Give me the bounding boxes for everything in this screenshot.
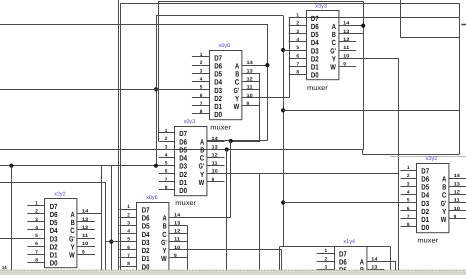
svg-text:muxer: muxer [210,124,232,131]
svg-text:2: 2 [296,21,299,27]
svg-text:3: 3 [296,29,299,35]
pin 8 (D0) of x0y6 [119,266,137,268]
svg-text:5: 5 [35,233,38,239]
svg-text:6: 6 [127,245,130,251]
pin 6 (D2) of x3y3 [289,58,307,60]
pin 2 (D6) of x0y0 [192,65,210,67]
svg-text:13: 13 [247,68,254,74]
pin 6 (D2) of x0y0 [192,97,210,99]
wire horizontal y=110.4 to right vertical [283,110,459,112]
svg-text:12: 12 [174,229,181,235]
svg-text:8: 8 [407,222,410,228]
junction dot left end of y=165.7 wire [9,164,13,168]
svg-text:6: 6 [165,169,168,175]
wire x0y0 B output wire [242,73,260,75]
pin 13 (B) of x1y4 [367,269,385,271]
pin 4 (D4) of x3y2 [401,194,417,196]
wire x0y3 A output wire to junction [207,140,231,142]
wire vertical x=398.4 from x3y3 Y down to bottom band [398,58,400,270]
pin 10 (Y) of x2y2 [77,246,95,248]
wire vertical step x=362.6 [362,150,364,155]
pin 3 (D5) of x3y2 [401,186,417,188]
svg-text:10: 10 [82,241,89,247]
wire horizontal y=241.6 into x0y6 pin5 [105,241,137,243]
svg-text:11: 11 [82,233,89,239]
junction dot on D3 bus at y=110.4 [281,108,285,112]
svg-text:14: 14 [174,212,181,218]
pin 2 (D6) of x3y3 [289,25,307,27]
wire stub entering from right edge y=24.2 [461,24,466,26]
pin 12 (C) of x2y2 [77,229,95,231]
pin 9 (W) of x3y2 [449,218,466,220]
wire vertical x=400.2 from screen top [400,0,402,37]
wire vertical x=259.9 from x0y0 B down [259,73,261,142]
wire net D7 row: horizontal y=1.2 [158,1,363,3]
pin 14 (A) of x3y3 [339,25,357,27]
svg-text:7: 7 [127,253,130,259]
pin 9 (W) of x0y3 [207,181,225,183]
pin 14 (A) of x1y4 [367,261,385,263]
muxer x2y2 [27,192,95,275]
wire x3y3 A output wire to junction [339,25,364,27]
pin 5 (D3) of x0y6 [119,241,137,243]
junction dot x3y3 pin5 wire [281,48,285,52]
svg-text:muxer: muxer [175,200,197,207]
pin 2 (D6) of x0y6 [119,217,137,219]
pin 14 (A) of x0y6 [169,217,187,219]
svg-text:1: 1 [200,52,203,58]
pin 9 (W) of x3y3 [339,66,357,68]
svg-text:W: W [161,254,167,263]
svg-text:4: 4 [165,152,168,158]
wire horizontal y=238.1 from left edge into x2y2 pin5 [0,238,45,240]
pin 14 (A) of x2y2 [77,213,95,215]
wire x0y6 B output wire [169,225,187,227]
svg-text:x0y0: x0y0 [219,43,231,49]
svg-text:5: 5 [127,237,130,243]
pin 12 (C) of x0y3 [207,157,225,159]
wire vertical x=120.5 from top wire down to x0y6 pin2 [120,3,122,270]
wire horizontal y=165.7 into x0y3 pin5 [0,165,175,167]
pin 9 (W) of x0y0 [242,105,260,107]
svg-text:muxer: muxer [307,85,329,92]
svg-text:W: W [69,251,75,260]
svg-text:x2y2: x2y2 [54,192,66,198]
svg-text:13: 13 [212,144,219,150]
svg-text:2: 2 [325,256,328,262]
wire vertical x=281.9 down to bottom band [281,250,283,271]
pin 1 (D7) of x3y2 [401,170,417,172]
svg-text:2: 2 [35,209,38,215]
wire horizontal y=154.4 step to right vertical [363,154,460,156]
pin 8 (D0) of x3y3 [289,74,307,76]
svg-text:10: 10 [247,93,254,99]
junction dot x0y3 A output [229,139,233,143]
wire horizontal y=24 from left edge [0,24,267,26]
wire vertical x=280.1 down to bottom band [279,247,281,271]
pin 13 (B) of x3y2 [449,186,466,188]
muxer x3y2 [401,156,466,244]
wire net D3 horizontal y=15.5 [156,15,283,17]
svg-text:D0: D0 [421,223,429,232]
wire x1y4 A output wire [367,261,396,263]
svg-text:13: 13 [82,217,89,223]
svg-text:13: 13 [371,265,378,271]
wire horizontal y=182.1 from left edge [0,182,105,184]
svg-text:5: 5 [407,198,410,204]
svg-text:4: 4 [35,225,38,231]
wire horizontal y=202.5 into x3y2 pin5 [283,202,417,204]
svg-text:11: 11 [454,198,461,204]
muxer x3y3 [289,4,357,92]
wire vertical x=101.6 from y=165.7 wire down to x2y2 A output [101,166,103,271]
svg-text:D0: D0 [311,71,319,80]
pin 6 (D2) of x3y2 [401,210,417,212]
svg-text:14: 14 [343,21,350,27]
pin 14 (A) of x0y0 [242,65,260,67]
wire vertical x=395.7 from x1y4 A down [395,261,397,270]
pin 10 (Y) of x3y2 [449,210,466,212]
wire horizontal into x3y3 pin5 [283,50,306,52]
pin 7 (D1) of x2y2 [27,254,45,256]
svg-text:7: 7 [407,214,410,220]
svg-text:1: 1 [296,13,299,19]
pin 5 (D3) of x0y3 [159,165,175,167]
wire x2y2 A output wire [77,213,101,215]
svg-text:1: 1 [407,165,410,171]
pin 10 (Y) of x3y3 [339,58,357,60]
pin 4 (D4) of x0y3 [159,157,175,159]
junction dot x0y0 A output [265,63,269,67]
svg-text:2: 2 [127,212,130,218]
svg-text:9: 9 [454,214,457,220]
svg-text:9: 9 [343,61,346,67]
pin 11 (G&#39;) of x3y3 [339,50,357,52]
svg-text:3: 3 [407,181,410,187]
muxer x0y0 [192,43,260,131]
pin 7 (D1) of x3y3 [289,66,307,68]
wire vertical x=259.4 from Y wire down to bottom band [259,174,261,271]
svg-text:W: W [441,215,447,224]
pin 5 (D3) of x0y0 [192,89,210,91]
pin 4 (D4) of x3y3 [289,41,307,43]
svg-text:W: W [234,102,240,111]
wire net D6: horizontal at top y=2.6 [121,3,460,5]
pin 11 (G&#39;) of x0y3 [207,165,225,167]
pin 3 (D5) of x1y4 [317,269,335,271]
pin 13 (B) of x0y6 [169,225,187,227]
svg-text:x1y4: x1y4 [343,239,355,245]
svg-text:5: 5 [296,45,299,51]
pin 13 (B) of x0y0 [242,73,260,75]
svg-text:2: 2 [407,173,410,179]
wire vertical x=289.1 connecting x3y3 D7 row to x0y0 Y output [289,18,291,98]
svg-text:13: 13 [343,29,350,35]
wire vertical x=230.7 down to x0y6 A output wire [230,141,232,217]
wire vertical x=187.2 down to bottom band [187,225,189,270]
wire vertical x=459.3 right side [459,3,461,154]
wire x0y3 Y output long wire [207,173,399,175]
pin 1 (D7) of x1y4 [317,253,335,255]
pin 2 (D6) of x1y4 [317,261,335,263]
wire x3y3 pin1 row horizontal y=17.5 passing through box to right [289,17,460,19]
svg-text:W: W [199,178,205,187]
pin 10 (Y) of x0y3 [207,173,225,175]
svg-text:4: 4 [407,190,410,196]
svg-text:14: 14 [212,136,219,142]
pin 6 (D2) of x0y6 [119,249,137,251]
muxer x1y4 [317,239,385,275]
wire vertical x=105.3 from y=182.1 wire down [105,182,107,270]
svg-text:D0: D0 [50,259,58,268]
pin 3 (D5) of x0y0 [192,73,210,75]
pin 7 (D1) of x3y2 [401,218,417,220]
svg-text:10: 10 [343,53,350,59]
pin 13 (B) of x2y2 [77,221,95,223]
svg-text:x0y6: x0y6 [146,195,158,201]
wire vertical x=11.5 down to bottom left pin14 stub [11,166,13,270]
wire horizontal jog y=140.8 [231,140,268,142]
pin 2 (D6) of x2y2 [27,213,45,215]
pin 11 (G&#39;) of x0y6 [169,241,187,243]
pin 4 (D4) of x2y2 [27,229,45,231]
wire horizontal y=149.5 from left edge through x0y3 D5 row [0,149,363,151]
pin 5 (D3) of x3y3 [289,50,307,52]
pin 3 (D5) of x2y2 [27,221,45,223]
svg-text:14: 14 [247,60,254,66]
grey page boundary line right side y=156.4 [390,156,466,158]
junction dot x0y3 pin5 wire at D vertical [154,164,158,168]
wire x0y6 A output wire [169,217,230,219]
svg-text:2: 2 [165,136,168,142]
pin 4 (D4) of x0y6 [119,233,137,235]
pin 1 (D7) of x0y0 [192,56,210,58]
svg-text:12: 12 [247,77,254,83]
svg-text:9: 9 [212,177,215,183]
pin 9 (W) of x2y2 [77,254,95,256]
svg-text:D0: D0 [179,186,187,195]
wire x3y3 B output wire [339,33,363,35]
svg-text:2: 2 [200,60,203,66]
pin 8 (D0) of x0y0 [192,113,210,115]
wire horizontal y=89.3 from left edge into x0y0 pin5 [0,89,210,91]
wire vertical x=111.3 from y=165.7 wire down to x0y6 pin5 wire [111,166,113,271]
svg-text:5: 5 [200,85,203,91]
wire vertical x=118.2 from screen top down to x0y6 pin1 [118,0,120,270]
pin 5 (D3) of x3y2 [401,202,417,204]
svg-text:14: 14 [371,256,378,262]
svg-text:1: 1 [35,201,38,207]
svg-text:11: 11 [343,45,350,51]
svg-text:12: 12 [82,225,89,231]
svg-text:x3y3: x3y3 [315,4,327,10]
wire vertical x=226.7 down to bottom band [226,150,228,271]
muxer x0y3 [159,119,225,207]
svg-text:6: 6 [35,241,38,247]
pin 11 (G&#39;) of x2y2 [77,238,95,240]
svg-text:6: 6 [296,53,299,59]
pin 1 (D7) of x2y2 [27,205,45,207]
pin 13 (B) of x0y3 [207,149,225,151]
wire x3y3 Y output wire [339,58,399,60]
pin 14 (A) of x3y2 [449,178,466,180]
pin 12 (C) of x3y2 [449,194,466,196]
pin 6 (D2) of x0y3 [159,173,175,175]
svg-text:1: 1 [165,128,168,134]
svg-text:W: W [330,63,336,72]
svg-text:8: 8 [200,109,203,115]
pin 11 (G&#39;) of x3y2 [449,202,466,204]
wire vertical x=267.3 down to x0y0 A output junction [267,24,269,141]
wire vertical D x=156 down through H89 to x0y3 pin5 row [156,16,158,166]
svg-text:12: 12 [454,190,461,196]
svg-text:8: 8 [296,70,299,76]
pin 3 (D5) of x0y6 [119,225,137,227]
svg-text:8: 8 [127,261,130,267]
wire horizontal y=246.8 above x1y4 [280,246,391,248]
svg-text:3: 3 [35,217,38,223]
muxer x0y6 [119,195,187,275]
svg-text:4: 4 [296,37,299,43]
svg-text:3: 3 [200,68,203,74]
svg-text:x0y3: x0y3 [184,119,196,125]
pin 8 (D0) of x3y2 [401,226,417,228]
pin number 14 of off-screen muxer at bottom left [2,265,7,271]
svg-text:12: 12 [212,152,219,158]
junction dot x3y3 A output [361,24,365,28]
svg-text:3: 3 [165,144,168,150]
pin 1 (D7) of x0y6 [119,209,137,211]
pin 4 (D4) of x0y0 [192,81,210,83]
junction dot on D vertical at H89 [154,87,158,91]
svg-text:muxer: muxer [417,237,439,244]
pin 7 (D1) of x0y0 [192,105,210,107]
pin 3 (D5) of x3y3 [289,33,307,35]
svg-text:11: 11 [212,161,219,167]
wire vertical C x=158.2 down to x0y3 pin2 [158,1,160,141]
svg-text:7: 7 [296,61,299,67]
pin 11 (G&#39;) of x0y0 [242,89,260,91]
junction dot x0y3 B output [225,147,229,151]
svg-text:8: 8 [35,258,38,264]
svg-text:4: 4 [127,229,130,235]
wire x0y6 Y output wire [169,249,282,251]
svg-text:10: 10 [212,169,219,175]
svg-text:7: 7 [165,177,168,183]
pin 6 (D2) of x2y2 [27,246,45,248]
pin 2 (D6) of x0y3 [159,141,175,143]
svg-text:11: 11 [247,85,254,91]
wire x0y0 A output wire to junction [242,65,267,67]
pin 10 (Y) of x0y6 [169,249,187,251]
svg-text:11: 11 [174,237,181,243]
svg-text:1: 1 [127,204,130,210]
junction dot x3y2 pin5 wire [281,200,285,204]
svg-text:12: 12 [343,37,350,43]
pin 2 (D6) of x3y2 [401,178,417,180]
pin 12 (C) of x3y3 [339,41,357,43]
pin 7 (D1) of x0y3 [159,181,175,183]
pin 3 (D5) of x0y3 [159,149,175,151]
wire vertical x=390.7 down to bottom band [390,247,392,271]
pin 12 (C) of x0y0 [242,81,260,83]
svg-text:9: 9 [247,101,250,107]
junction dot x0y6 pin5 wire [109,240,113,244]
pin 7 (D1) of x0y6 [119,257,137,259]
svg-text:9: 9 [82,249,85,255]
pin 14 (A) of x0y3 [207,141,225,143]
wire horizontal jog y=141.8 [231,141,260,143]
svg-text:6: 6 [407,206,410,212]
pin 5 (D3) of x2y2 [27,238,45,240]
pin 1 (D7) of x0y3 [159,132,175,134]
pin 12 (C) of x0y6 [169,233,187,235]
svg-text:7: 7 [200,101,203,107]
svg-text:13: 13 [454,181,461,187]
svg-text:7: 7 [35,249,38,255]
svg-text:14: 14 [82,209,89,215]
pin 8 (D0) of x0y3 [159,189,175,191]
wire vertical x=363.2 from y=1.2 down to H150 step [363,1,365,150]
svg-text:10: 10 [454,206,461,212]
pin 1 (D7) of x3y3 [289,17,307,19]
wire vertical bus x=283.1 net D3 [283,16,285,247]
pin 8 (D0) of x2y2 [27,262,45,264]
svg-text:9: 9 [174,253,177,259]
svg-text:5: 5 [165,161,168,167]
svg-text:6: 6 [200,93,203,99]
pin 13 (B) of x3y3 [339,33,357,35]
wire horizontal y=37.3 [400,37,459,39]
svg-text:14: 14 [454,173,461,179]
svg-text:3: 3 [127,221,130,227]
svg-text:10: 10 [174,245,181,251]
pin 10 (Y) of x0y0 [242,97,260,99]
svg-text:1: 1 [325,248,328,254]
pin 9 (W) of x0y6 [169,257,187,259]
svg-text:3: 3 [325,265,328,271]
svg-text:8: 8 [165,185,168,191]
svg-text:13: 13 [174,221,181,227]
svg-text:x3y2: x3y2 [426,156,438,162]
svg-text:D0: D0 [214,110,222,119]
svg-text:4: 4 [200,77,203,83]
wire x0y0 Y output to vertical riser [242,97,289,99]
